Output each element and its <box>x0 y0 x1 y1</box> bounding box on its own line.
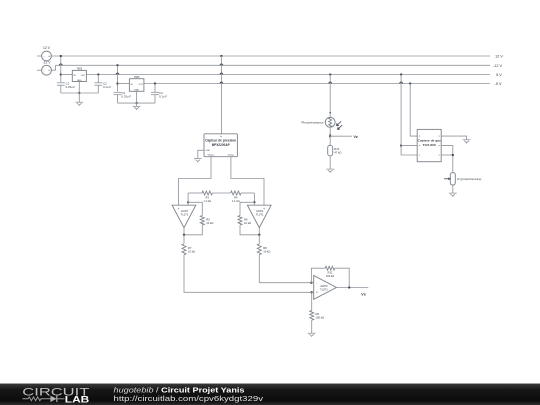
wire AOP1 inv input to R3 chain <box>187 193 189 202</box>
junction sensor supply on 12V rail <box>220 55 222 57</box>
wire AOP3 inv stub <box>311 282 313 284</box>
wire AOP3 output <box>336 287 368 289</box>
svg-text:Capteur de gaz: Capteur de gaz <box>418 138 441 142</box>
pressure sensor U3 MPX2200AP <box>204 134 237 157</box>
wire +5V rail <box>86 74 490 76</box>
ground symbol under U2 <box>136 103 138 106</box>
svg-text:+: + <box>178 207 180 211</box>
svg-text:OUT: OUT <box>138 84 143 86</box>
wire U2 GND down <box>136 91 138 103</box>
svg-text:R9: R9 <box>316 312 320 316</box>
resistor R8 <box>257 244 261 255</box>
voltage source V2 -12 V <box>42 65 52 75</box>
svg-text:OUT: OUT <box>81 75 86 77</box>
wire hop over 5V rail <box>116 73 119 74</box>
svg-text:TL071: TL071 <box>181 213 189 217</box>
resistor R3 <box>202 191 212 195</box>
wire U3 Voltage+ to AOP1 <box>179 157 212 206</box>
svg-text:0.1u F: 0.1u F <box>103 85 111 89</box>
svg-text:-: - <box>316 281 317 285</box>
wire feedback up <box>311 268 325 283</box>
junction C4 on -5V rail <box>154 82 156 84</box>
svg-text:10 kΩ: 10 kΩ <box>244 221 251 225</box>
svg-text:-12 V: -12 V <box>42 61 51 65</box>
svg-text:-: - <box>254 207 255 211</box>
svg-text:12 V: 12 V <box>43 46 51 50</box>
potentiometer wiper arrow <box>444 178 450 180</box>
wire -12V rail to U2 input <box>117 65 119 83</box>
svg-text:Voltage-: Voltage- <box>228 154 235 157</box>
svg-text:Ve: Ve <box>353 135 357 139</box>
svg-text:100 kΩ: 100 kΩ <box>326 274 334 278</box>
wire AOP2 output to R8 <box>258 235 260 244</box>
regulator U1 7805 <box>72 70 86 81</box>
capacitor C2 <box>94 82 102 84</box>
wire -5V rail <box>144 83 490 85</box>
wire U1 GND down <box>78 82 80 94</box>
svg-text:0.1u F: 0.1u F <box>159 94 167 98</box>
wire AOP2 inv input to R6 <box>240 202 254 215</box>
wire AOP1 inv input to R5 <box>188 202 202 215</box>
junction AOP3 output feedback <box>348 286 350 288</box>
capacitor C4 <box>151 91 159 93</box>
wire hop over -12V rail <box>220 64 223 65</box>
wire U2 ground bus <box>118 102 156 104</box>
svg-text:47 kΩ: 47 kΩ <box>334 151 341 155</box>
svg-text:5 V: 5 V <box>496 73 502 77</box>
svg-text:TL071: TL071 <box>256 213 264 217</box>
voltage source V1 12 V <box>42 51 52 61</box>
svg-text:+: + <box>48 69 50 73</box>
svg-text:-5 V: -5 V <box>495 82 502 86</box>
svg-text:AOP3: AOP3 <box>320 284 328 288</box>
resistor R10 (box style) <box>328 145 333 155</box>
wire hop over -5V rail <box>220 82 223 83</box>
svg-text:TL071: TL071 <box>320 287 328 291</box>
photoresistor arrows <box>336 121 341 125</box>
junction gas sensor -5V supply <box>409 82 411 84</box>
wire +12V rail <box>51 55 491 57</box>
wire 12V rail to pressure sensor <box>220 56 222 134</box>
svg-text:AOP2: AOP2 <box>256 209 264 213</box>
svg-text:R7: R7 <box>188 246 192 250</box>
wire hop over 5V rail <box>220 73 223 74</box>
svg-text:10 kΩ: 10 kΩ <box>188 250 195 254</box>
svg-text:7905: 7905 <box>134 75 140 79</box>
wire AOP2 output <box>258 228 260 235</box>
junction potentiometer node <box>452 154 454 156</box>
svg-text:1.1 kΩ: 1.1 kΩ <box>232 199 240 203</box>
svg-text:R8: R8 <box>263 246 267 250</box>
junction AOP1 inverting input <box>187 201 189 203</box>
wire U1 input <box>61 74 73 76</box>
wire LDR to node Ve <box>329 127 331 136</box>
wire U3 Voltage- to AOP2 <box>231 157 264 206</box>
wire hop over -5V rail <box>329 82 332 83</box>
wire 12V rail to U1 input <box>60 56 62 75</box>
junction AOP3 non-inverting input <box>311 291 313 293</box>
wire AOP2 inverting input stub <box>253 202 255 205</box>
resistor R7 <box>182 244 186 255</box>
potentiometer R (box style) <box>450 173 455 185</box>
junction AOP2 output <box>258 234 260 236</box>
svg-text:Voltage+: Voltage+ <box>207 154 214 157</box>
wire hop over -12V rail <box>59 64 62 65</box>
wire C3 to ground bus <box>117 95 119 104</box>
svg-text:GND: GND <box>134 89 139 91</box>
pin marks U4 <box>419 136 420 137</box>
ground symbol under R9 <box>308 332 316 334</box>
svg-text:Capteur de pression: Capteur de pression <box>205 139 236 143</box>
wire -12V rail <box>56 64 491 66</box>
svg-text:R (potentiomètre): R (potentiomètre) <box>457 177 481 181</box>
svg-text:R6: R6 <box>244 218 248 222</box>
svg-text:12 V: 12 V <box>495 55 503 59</box>
wire hop over -5V rail <box>400 82 403 83</box>
wire to gas sensor pin 3 <box>401 146 417 155</box>
logo diode symbol <box>50 396 56 402</box>
ground symbol under R10 <box>326 168 334 170</box>
resistor R12 feedback <box>325 266 335 270</box>
wire potentiometer to ground <box>452 185 454 193</box>
junction gas sensor supply on 5V rail <box>400 73 402 75</box>
svg-text:0.33u F: 0.33u F <box>122 94 132 98</box>
wire 5V rail to photoresistor <box>329 75 331 118</box>
junction LDR supply on 5V rail <box>329 73 331 75</box>
gas sensor U4 TGS 800 <box>417 129 441 161</box>
wire chain down to AOP2 inv input <box>253 193 255 202</box>
svg-text:R10: R10 <box>334 147 339 151</box>
capacitor C1 <box>57 82 65 84</box>
wire AOP3 non-inv stub <box>312 291 314 293</box>
svg-text:+: + <box>316 291 318 295</box>
svg-text:10 kΩ: 10 kΩ <box>263 250 270 254</box>
resistor R4 <box>231 191 241 195</box>
svg-text:LAB: LAB <box>65 394 90 404</box>
wire C4 top leg <box>154 84 156 93</box>
wire to gas sensor pin 2 <box>401 145 417 147</box>
svg-text:R4: R4 <box>234 195 238 199</box>
svg-text:Photorésistance: Photorésistance <box>301 121 323 125</box>
svg-text:R3: R3 <box>206 195 210 199</box>
wire V2 to -12V rail <box>51 65 55 70</box>
wire U2 input <box>118 83 130 85</box>
junction AOP3 inverting input <box>310 282 312 284</box>
svg-text:GND: GND <box>206 150 211 152</box>
junction on 12V rail <box>60 55 62 57</box>
banner background <box>0 384 540 405</box>
wire feedback to output <box>335 268 349 287</box>
ground symbol under U1 <box>78 93 80 102</box>
wire R3 to R4 <box>212 192 230 194</box>
regulator U2 7905 <box>129 79 144 92</box>
svg-text:R5: R5 <box>206 218 210 222</box>
wire R4 chain right <box>241 192 254 194</box>
svg-text:7805: 7805 <box>76 66 82 70</box>
svg-text:TGS 800: TGS 800 <box>423 143 436 147</box>
wire Ve node down to R10 <box>329 136 331 145</box>
junction C2 on 5V rail <box>97 73 99 75</box>
junction gas sensor middle pin <box>400 144 402 146</box>
svg-text:+: + <box>263 207 265 211</box>
svg-text:100 kΩ: 100 kΩ <box>316 315 325 319</box>
op-amp AOP2 TL071 <box>247 205 271 228</box>
wire AOP3 to R9 <box>311 292 313 310</box>
svg-text:R12: R12 <box>328 271 333 275</box>
wire -5V rail to gas sensor pin 1 <box>410 84 417 137</box>
ground symbol at U3 <box>194 158 202 160</box>
wire R6 to AOP2 output <box>240 225 259 235</box>
svg-text:http://circuitlab.com/cpv6kydg: http://circuitlab.com/cpv6kydgt329v <box>114 394 264 403</box>
svg-text:1.1 kΩ: 1.1 kΩ <box>203 199 211 203</box>
wire C1 to ground bus <box>60 85 62 93</box>
junction U2 ground bus <box>135 102 137 104</box>
wire U3 GND to ground <box>198 150 204 158</box>
wire C2 bottom leg <box>97 85 99 93</box>
wire V2 negative stub <box>37 69 42 71</box>
wire U1 ground bus <box>61 92 99 94</box>
wire C4 bottom leg <box>154 95 156 104</box>
ground symbol right of U4 <box>463 139 471 141</box>
wire AOP1 inverting input stub <box>187 202 189 205</box>
junction on -12V rail <box>116 64 118 66</box>
wire R3 chain left <box>188 192 202 194</box>
resistor R6 <box>238 216 242 226</box>
svg-text:+: + <box>48 54 50 58</box>
junction U2 input node <box>116 82 118 84</box>
svg-text:Vs: Vs <box>361 292 366 296</box>
wire AOP1 output to R7 <box>183 235 185 244</box>
wire R9 to ground <box>311 320 313 333</box>
wire C2 top leg <box>97 75 99 84</box>
wire AOP1 output <box>183 228 185 235</box>
ground symbol under potentiometer <box>449 192 457 194</box>
op-amp AOP3 TL071 <box>314 275 337 299</box>
op-amp AOP1 TL071 <box>172 205 196 228</box>
wire U4 pin6 to potentiometer node <box>441 154 453 156</box>
svg-text:MPX2200AP: MPX2200AP <box>212 143 231 147</box>
svg-text:0.33u F: 0.33u F <box>66 85 76 89</box>
logo schematic squiggle <box>23 397 51 401</box>
resistor R5 <box>200 216 204 226</box>
junction U1 ground bus <box>78 92 80 94</box>
wire V1 negative stub <box>37 55 42 57</box>
junction AOP2 inverting input <box>253 201 255 203</box>
wire R7 to AOP3 non-inverting input <box>184 255 312 293</box>
wire 5V rail to gas sensor <box>400 75 402 146</box>
svg-text:10 kΩ: 10 kΩ <box>206 221 213 225</box>
junction U1 input node <box>60 73 62 75</box>
photoresistor LDR1 <box>325 117 335 127</box>
wire U4 pin5 to potentiometer <box>441 146 453 173</box>
capacitor C3 <box>114 91 122 93</box>
junction AOP1 output <box>183 234 185 236</box>
junction node Ve <box>329 135 331 137</box>
svg-text:AOP1: AOP1 <box>181 209 189 213</box>
svg-text:-12 V: -12 V <box>493 64 503 68</box>
resistor R9 <box>310 310 314 320</box>
wire R10 to ground <box>329 156 331 169</box>
wire node Ve to label <box>330 135 352 137</box>
wire U4 pin4 to ground <box>441 136 466 139</box>
wire R5 to AOP1 output <box>184 225 202 235</box>
wire R8 to AOP3 inverting input <box>259 255 311 283</box>
